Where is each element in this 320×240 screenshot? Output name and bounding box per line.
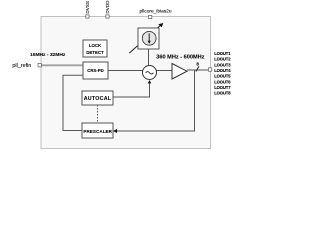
labels LOOUT1-LOOUT8 — [214, 51, 231, 96]
svg-text:PRESCALER: PRESCALER — [83, 129, 112, 134]
VCO oscillator — [143, 66, 157, 80]
wire: buffer output to LOOUT pin — [187, 69, 209, 71]
svg-text:LOOUT5: LOOUT5 — [214, 74, 231, 79]
PRESCALER box — [82, 123, 113, 138]
wire: pll_refin to CRS-PD upper input — [42, 64, 84, 66]
svg-text:DVSS: DVSS — [85, 1, 90, 14]
svg-text:DVDD: DVDD — [105, 0, 110, 14]
pin DVSS — [86, 15, 89, 18]
svg-text:360 MHz - 600MHz: 360 MHz - 600MHz — [156, 54, 204, 60]
svg-text:LOOUT2: LOOUT2 — [214, 57, 231, 62]
svg-text:LOOUT3: LOOUT3 — [214, 62, 231, 67]
svg-text:LOOUT6: LOOUT6 — [214, 79, 231, 84]
LOCK DETECT box — [83, 40, 107, 57]
wire: CRS-PD output to VCO — [108, 70, 143, 72]
svg-text:AUTOCAL: AUTOCAL — [84, 96, 112, 102]
svg-text:pllcore_ibias2u: pllcore_ibias2u — [140, 9, 172, 15]
current source I1 (adjustable bias) — [129, 23, 163, 53]
block outline: PLL core boundary — [41, 17, 211, 149]
wire: prescaler feedback to CRS-PD lower input — [63, 75, 83, 130]
svg-text:LOOUT7: LOOUT7 — [214, 85, 231, 90]
svg-text:LOCK: LOCK — [89, 43, 102, 48]
wire: AUTOCAL output to VCO bottom (with up arrow) — [113, 83, 150, 98]
pin DVDD — [106, 15, 109, 18]
arrowhead into PRESCALER right side — [113, 129, 117, 133]
svg-text:CRS-PD: CRS-PD — [87, 68, 103, 73]
wire: current source to VCO top — [148, 49, 150, 66]
svg-text:16MHz - 32MHz: 16MHz - 32MHz — [30, 52, 66, 58]
pin LOOUT bus — [208, 68, 211, 71]
svg-text:LOOUT8: LOOUT8 — [214, 91, 231, 96]
dashed wire: AUTOCAL to PRESCALER — [97, 105, 99, 123]
svg-text:LOOUT4: LOOUT4 — [214, 68, 231, 73]
pin pllcore_ibias2u — [149, 15, 152, 18]
buffer amplifier — [172, 64, 187, 80]
svg-text:pll_refin: pll_refin — [12, 63, 31, 69]
wire: output feedback down to prescaler — [115, 70, 195, 131]
bus slash mark with 8 — [196, 66, 199, 71]
AUTOCAL box — [82, 91, 113, 105]
pin pll_refin — [38, 64, 41, 67]
svg-text:LOOUT1: LOOUT1 — [214, 51, 231, 56]
svg-text:DETECT: DETECT — [86, 50, 104, 55]
CRS-PD box — [83, 62, 108, 79]
adjustable arrow (under box) — [129, 24, 161, 53]
wire: VCO to buffer — [157, 70, 173, 72]
